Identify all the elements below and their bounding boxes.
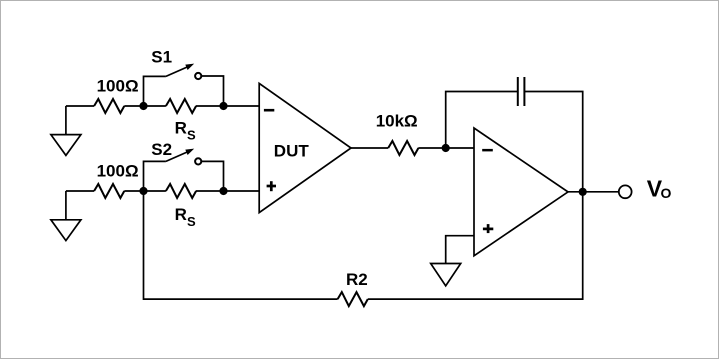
- svg-text:O: O: [661, 185, 672, 201]
- wire: R1 to RS (row 1, through left junction): [124, 105, 166, 107]
- svg-text:R: R: [175, 205, 187, 224]
- switch S2: [144, 149, 224, 191]
- junction dot (row2 left): [139, 187, 147, 195]
- resistor RS (bottom): [166, 184, 196, 198]
- wire: feedback riser to capacitor: [446, 92, 518, 149]
- U2 non-inverting input marker (+): [483, 224, 493, 233]
- svg-text:10kΩ: 10kΩ: [376, 112, 418, 131]
- svg-text:S: S: [187, 128, 196, 143]
- svg-text:S2: S2: [151, 140, 172, 159]
- U2 inverting input marker (-): [482, 149, 493, 152]
- svg-text:S1: S1: [151, 48, 172, 67]
- resistor R1 100ohm (top left): [94, 99, 124, 113]
- wire: feedback drop from output node to R2: [368, 192, 583, 299]
- wire: G1 to R1: [66, 105, 94, 107]
- wire: R4 to U2 inverting input: [418, 147, 474, 149]
- svg-text:R2: R2: [346, 270, 368, 289]
- wire: RS to DUT non-inverting input: [196, 190, 259, 192]
- svg-text:S: S: [187, 214, 196, 229]
- junction dot (U2 inverting input node): [442, 144, 450, 152]
- wire: R2 back to row2 left junction: [144, 191, 338, 299]
- junction dot (row1 left): [139, 102, 147, 110]
- ground G2: [51, 191, 81, 241]
- junction dot (output node): [579, 188, 587, 196]
- wire: U2 non-inverting input to ground: [446, 236, 474, 264]
- junction dot (row2 right): [219, 187, 227, 195]
- resistor R2: [338, 292, 368, 306]
- wire: U2 output to terminal: [568, 191, 618, 193]
- svg-text:100Ω: 100Ω: [97, 77, 139, 96]
- wire: G2 to R3: [66, 190, 94, 192]
- op-amp U2: [474, 128, 568, 256]
- svg-text:DUT: DUT: [274, 141, 310, 160]
- svg-text:100Ω: 100Ω: [97, 162, 139, 181]
- switch S1: [144, 64, 224, 106]
- DUT inverting input marker (-): [264, 109, 274, 112]
- resistor RS (top): [166, 99, 196, 113]
- wire: RS to DUT inverting input: [196, 105, 259, 107]
- capacitor C1: [518, 77, 525, 106]
- svg-text:R: R: [175, 119, 187, 138]
- op-amp DUT: [259, 83, 351, 212]
- junction dot (row1 right): [219, 102, 227, 110]
- DUT non-inverting input marker (+): [267, 181, 276, 191]
- resistor R3 100ohm (bottom left): [94, 184, 124, 198]
- wire: R3 to RS (row 2): [124, 190, 166, 192]
- output terminal VO: [619, 185, 632, 198]
- resistor R4 10kohm: [388, 141, 418, 155]
- ground G1: [51, 106, 81, 155]
- ground G3: [431, 264, 461, 286]
- wire: DUT output to R4: [351, 147, 388, 149]
- wire: capacitor to output node: [524, 92, 582, 192]
